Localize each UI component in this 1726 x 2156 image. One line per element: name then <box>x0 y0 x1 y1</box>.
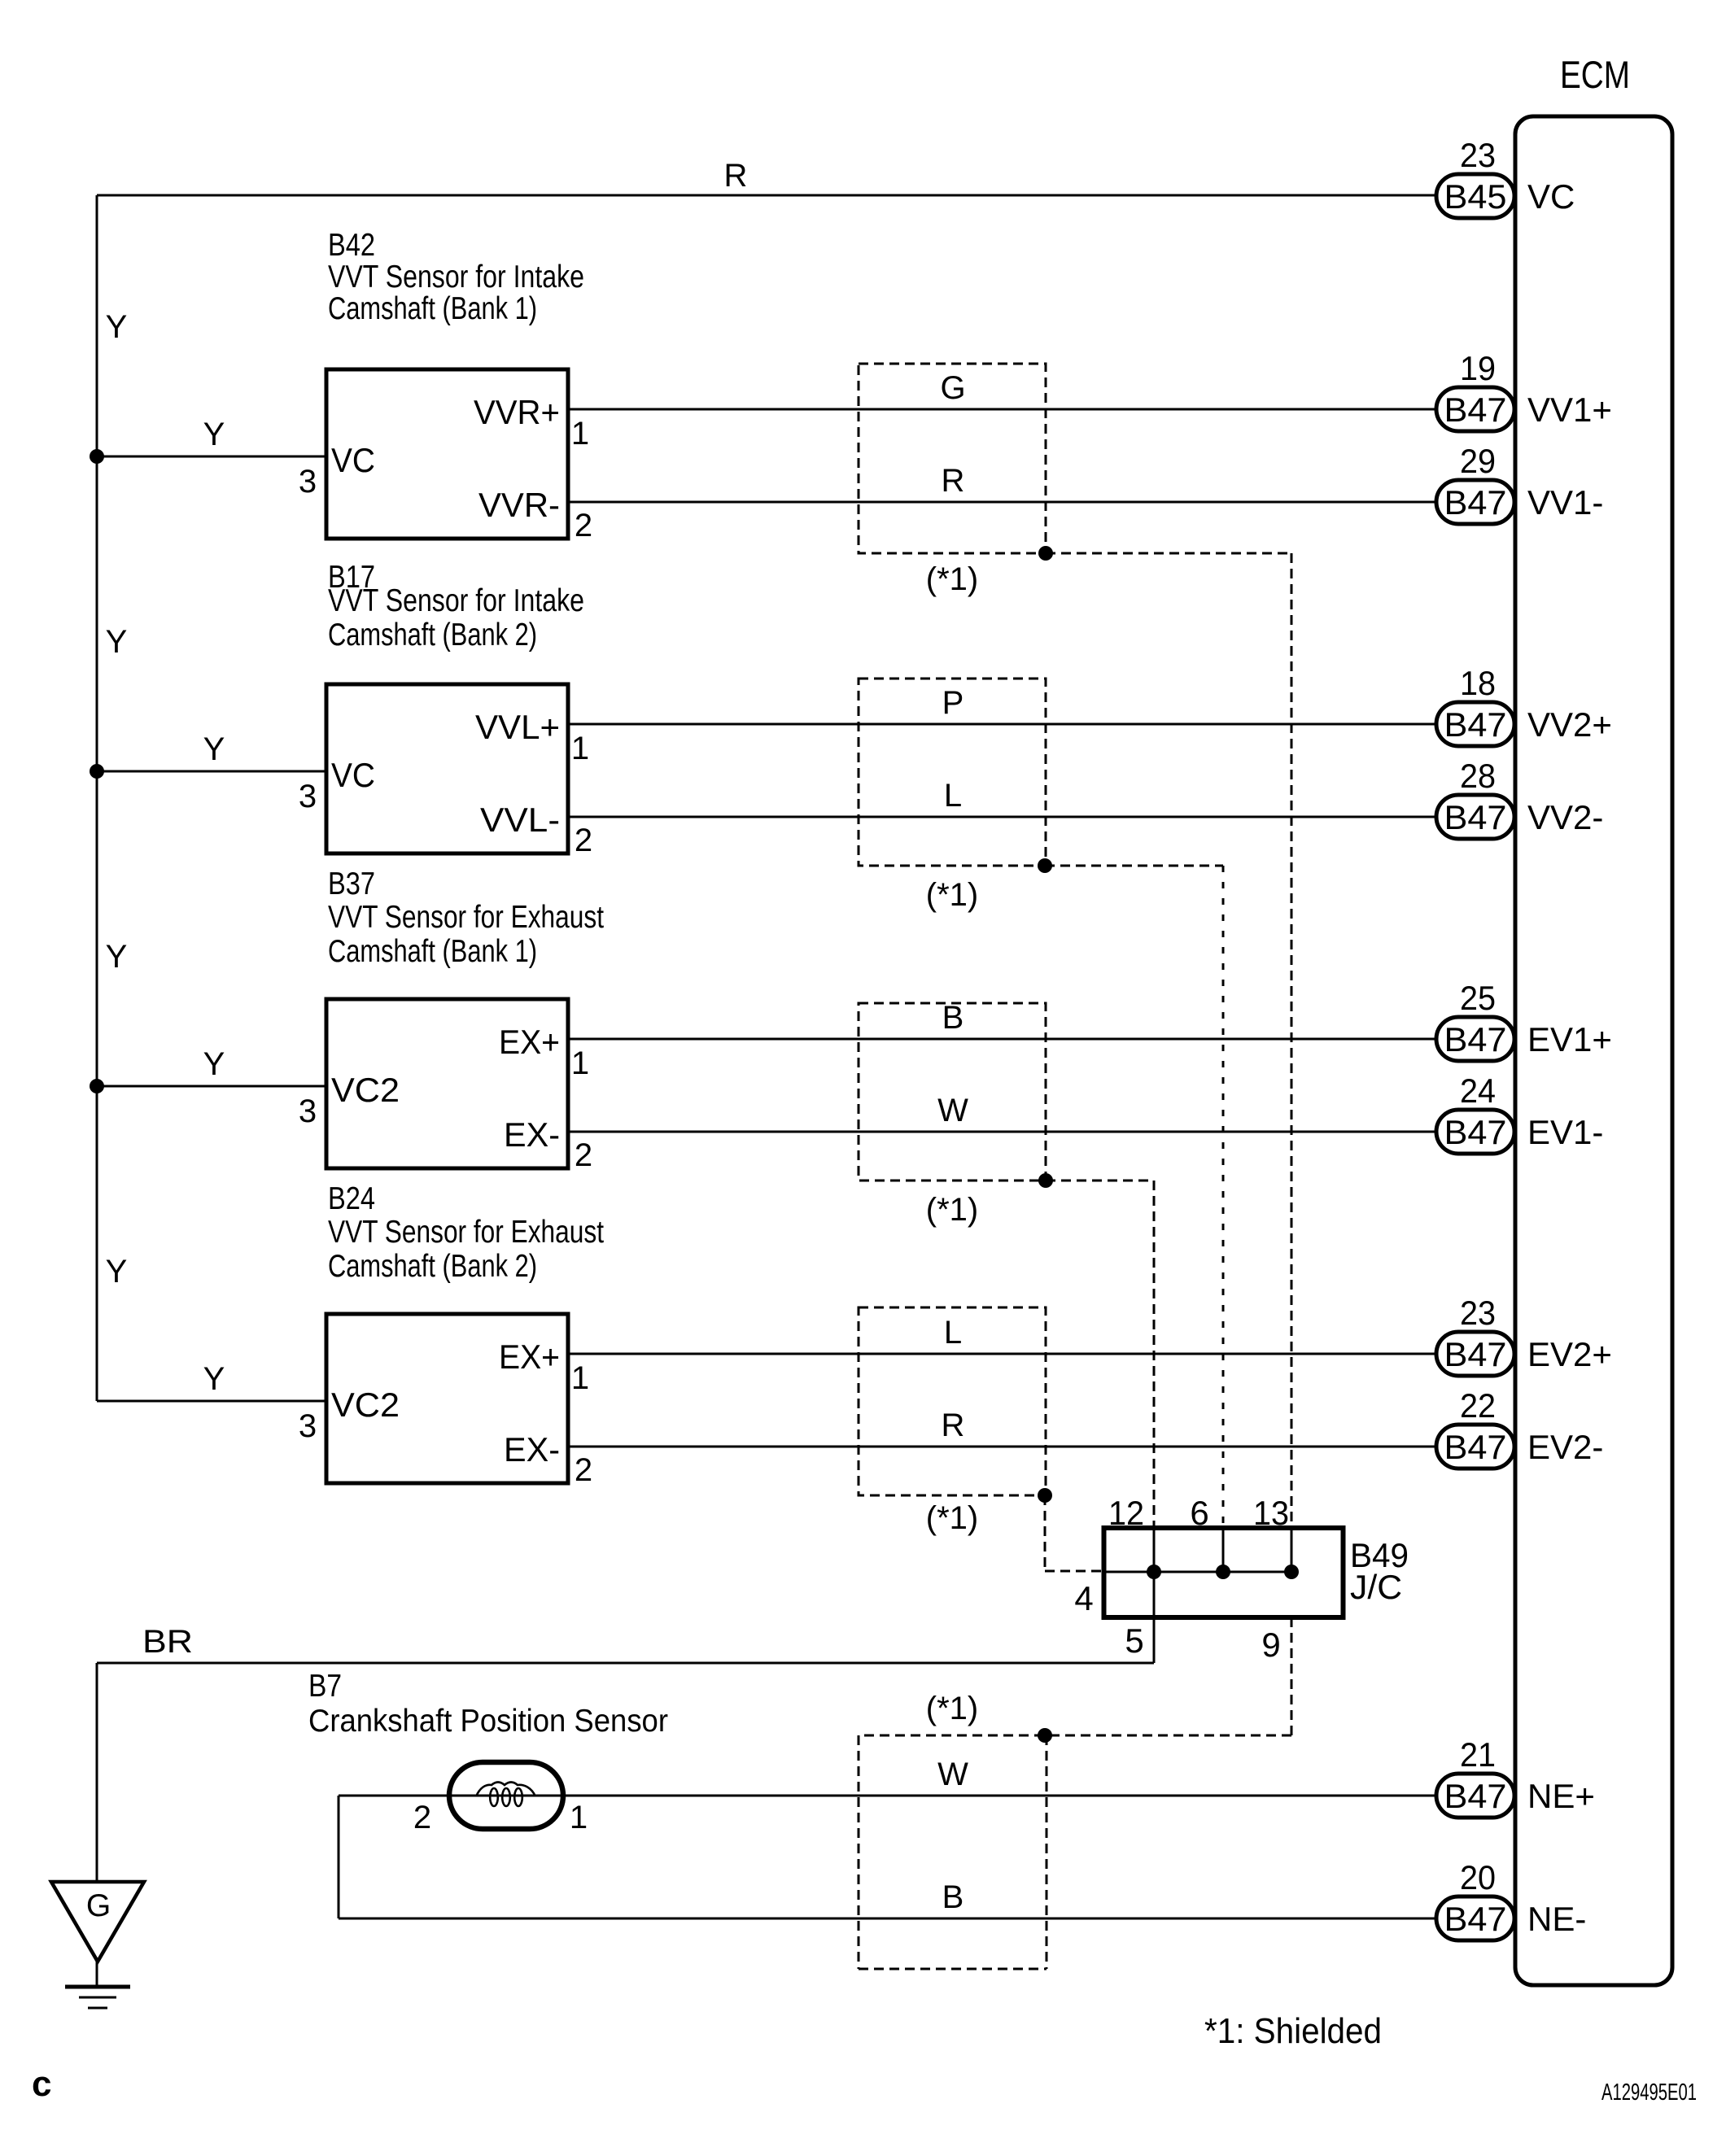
svg-text:R: R <box>942 463 965 499</box>
svg-text:EV2+: EV2+ <box>1527 1335 1612 1373</box>
svg-text:W: W <box>937 1093 968 1128</box>
svg-text:VVR-: VVR- <box>478 486 560 524</box>
svg-text:B47: B47 <box>1444 483 1507 522</box>
svg-text:Y: Y <box>203 1361 225 1397</box>
svg-text:B47: B47 <box>1444 705 1507 744</box>
svg-text:23: 23 <box>1460 136 1496 174</box>
svg-text:B47: B47 <box>1444 1777 1507 1815</box>
svg-text:EX+: EX+ <box>499 1338 560 1376</box>
svg-text:28: 28 <box>1460 757 1496 795</box>
svg-text:BR: BR <box>142 1624 193 1660</box>
svg-text:(*1): (*1) <box>926 561 978 597</box>
svg-text:EX-: EX- <box>504 1115 560 1154</box>
svg-text:VVL-: VVL- <box>480 801 560 839</box>
svg-text:B47: B47 <box>1444 1428 1507 1466</box>
svg-text:VV1-: VV1- <box>1527 483 1603 522</box>
svg-text:B47: B47 <box>1444 1900 1507 1938</box>
svg-text:B47: B47 <box>1444 1335 1507 1373</box>
svg-text:4: 4 <box>1074 1579 1093 1617</box>
svg-text:VVL+: VVL+ <box>475 708 560 746</box>
svg-text:B37: B37 <box>328 866 375 901</box>
svg-text:19: 19 <box>1460 349 1496 387</box>
svg-text:*1: Shielded: *1: Shielded <box>1204 2011 1382 2051</box>
svg-text:VVT Sensor for Intake: VVT Sensor for Intake <box>328 260 584 295</box>
svg-text:VC: VC <box>1527 177 1575 216</box>
svg-text:Y: Y <box>106 309 128 345</box>
svg-text:EV1+: EV1+ <box>1527 1020 1612 1058</box>
svg-text:B47: B47 <box>1444 1113 1507 1151</box>
svg-text:A129495E01: A129495E01 <box>1601 2080 1697 2106</box>
svg-text:L: L <box>944 778 962 814</box>
svg-text:1: 1 <box>571 1045 589 1081</box>
svg-text:2: 2 <box>413 1800 431 1835</box>
svg-text:1: 1 <box>571 731 589 766</box>
svg-text:2: 2 <box>575 508 592 543</box>
svg-text:Y: Y <box>203 1046 225 1082</box>
svg-text:22: 22 <box>1460 1386 1496 1425</box>
svg-text:B47: B47 <box>1444 391 1507 429</box>
svg-text:2: 2 <box>575 823 592 858</box>
svg-text:Camshaft (Bank 2): Camshaft (Bank 2) <box>328 1249 537 1284</box>
svg-text:Crankshaft Position Sensor: Crankshaft Position Sensor <box>308 1704 668 1739</box>
svg-text:VV2+: VV2+ <box>1527 705 1612 744</box>
svg-text:1: 1 <box>571 416 589 452</box>
svg-text:VC: VC <box>331 756 375 794</box>
svg-text:B42: B42 <box>328 228 375 263</box>
svg-text:VC2: VC2 <box>331 1071 400 1109</box>
svg-text:B: B <box>942 1879 964 1915</box>
svg-text:9: 9 <box>1261 1626 1280 1664</box>
svg-text:23: 23 <box>1460 1294 1496 1332</box>
svg-text:VC2: VC2 <box>331 1386 400 1424</box>
svg-text:6: 6 <box>1190 1494 1208 1532</box>
svg-text:G: G <box>86 1888 111 1923</box>
svg-text:3: 3 <box>299 464 317 500</box>
svg-text:R: R <box>724 158 748 194</box>
svg-text:Y: Y <box>203 731 225 767</box>
svg-text:Camshaft (Bank 1): Camshaft (Bank 1) <box>328 934 537 969</box>
svg-text:Y: Y <box>203 417 225 452</box>
svg-text:3: 3 <box>299 1408 317 1444</box>
svg-text:1: 1 <box>571 1360 589 1396</box>
svg-text:5: 5 <box>1125 1621 1143 1660</box>
svg-text:W: W <box>937 1757 968 1792</box>
svg-text:B7: B7 <box>308 1669 342 1704</box>
svg-text:(*1): (*1) <box>926 1691 978 1726</box>
svg-text:13: 13 <box>1253 1494 1289 1532</box>
svg-text:29: 29 <box>1460 442 1496 480</box>
svg-text:L: L <box>944 1315 962 1351</box>
svg-text:B47: B47 <box>1444 798 1507 836</box>
svg-text:B47: B47 <box>1444 1020 1507 1058</box>
svg-text:20: 20 <box>1460 1858 1496 1896</box>
svg-text:24: 24 <box>1460 1071 1496 1110</box>
svg-text:VV2-: VV2- <box>1527 798 1603 836</box>
svg-text:VC: VC <box>331 441 375 479</box>
svg-text:G: G <box>940 370 965 406</box>
svg-text:1: 1 <box>570 1800 588 1835</box>
svg-text:3: 3 <box>299 779 317 814</box>
svg-text:B: B <box>942 1000 964 1036</box>
svg-text:25: 25 <box>1460 979 1496 1017</box>
svg-text:c: c <box>32 2064 51 2104</box>
svg-text:EX-: EX- <box>504 1430 560 1469</box>
svg-text:B24: B24 <box>328 1181 375 1216</box>
svg-text:2: 2 <box>575 1137 592 1173</box>
svg-text:Y: Y <box>106 939 128 975</box>
svg-text:21: 21 <box>1460 1735 1496 1774</box>
svg-text:Y: Y <box>106 624 128 660</box>
svg-text:R: R <box>942 1408 965 1443</box>
svg-text:EV1-: EV1- <box>1527 1113 1603 1151</box>
svg-text:12: 12 <box>1108 1494 1144 1532</box>
svg-text:ECM: ECM <box>1560 53 1630 96</box>
svg-text:Camshaft (Bank 1): Camshaft (Bank 1) <box>328 291 537 326</box>
svg-text:B45: B45 <box>1444 177 1507 216</box>
svg-text:VVT Sensor for Exhaust: VVT Sensor for Exhaust <box>328 1215 604 1250</box>
svg-text:Y: Y <box>106 1254 128 1290</box>
svg-text:NE-: NE- <box>1527 1900 1586 1938</box>
svg-text:2: 2 <box>575 1452 592 1488</box>
svg-text:VVT Sensor for Intake: VVT Sensor for Intake <box>328 583 584 618</box>
svg-text:Camshaft (Bank 2): Camshaft (Bank 2) <box>328 618 537 652</box>
svg-text:VVT Sensor for Exhaust: VVT Sensor for Exhaust <box>328 900 604 935</box>
svg-text:3: 3 <box>299 1093 317 1129</box>
svg-text:(*1): (*1) <box>926 877 978 913</box>
svg-text:EV2-: EV2- <box>1527 1428 1603 1466</box>
svg-text:(*1): (*1) <box>926 1500 978 1536</box>
svg-text:P: P <box>942 685 964 721</box>
svg-text:18: 18 <box>1460 664 1496 702</box>
svg-text:(*1): (*1) <box>926 1192 978 1228</box>
svg-text:EX+: EX+ <box>499 1023 560 1061</box>
svg-text:J/C: J/C <box>1350 1568 1402 1606</box>
svg-text:VVR+: VVR+ <box>474 393 560 431</box>
svg-text:VV1+: VV1+ <box>1527 391 1612 429</box>
svg-text:NE+: NE+ <box>1527 1777 1595 1815</box>
